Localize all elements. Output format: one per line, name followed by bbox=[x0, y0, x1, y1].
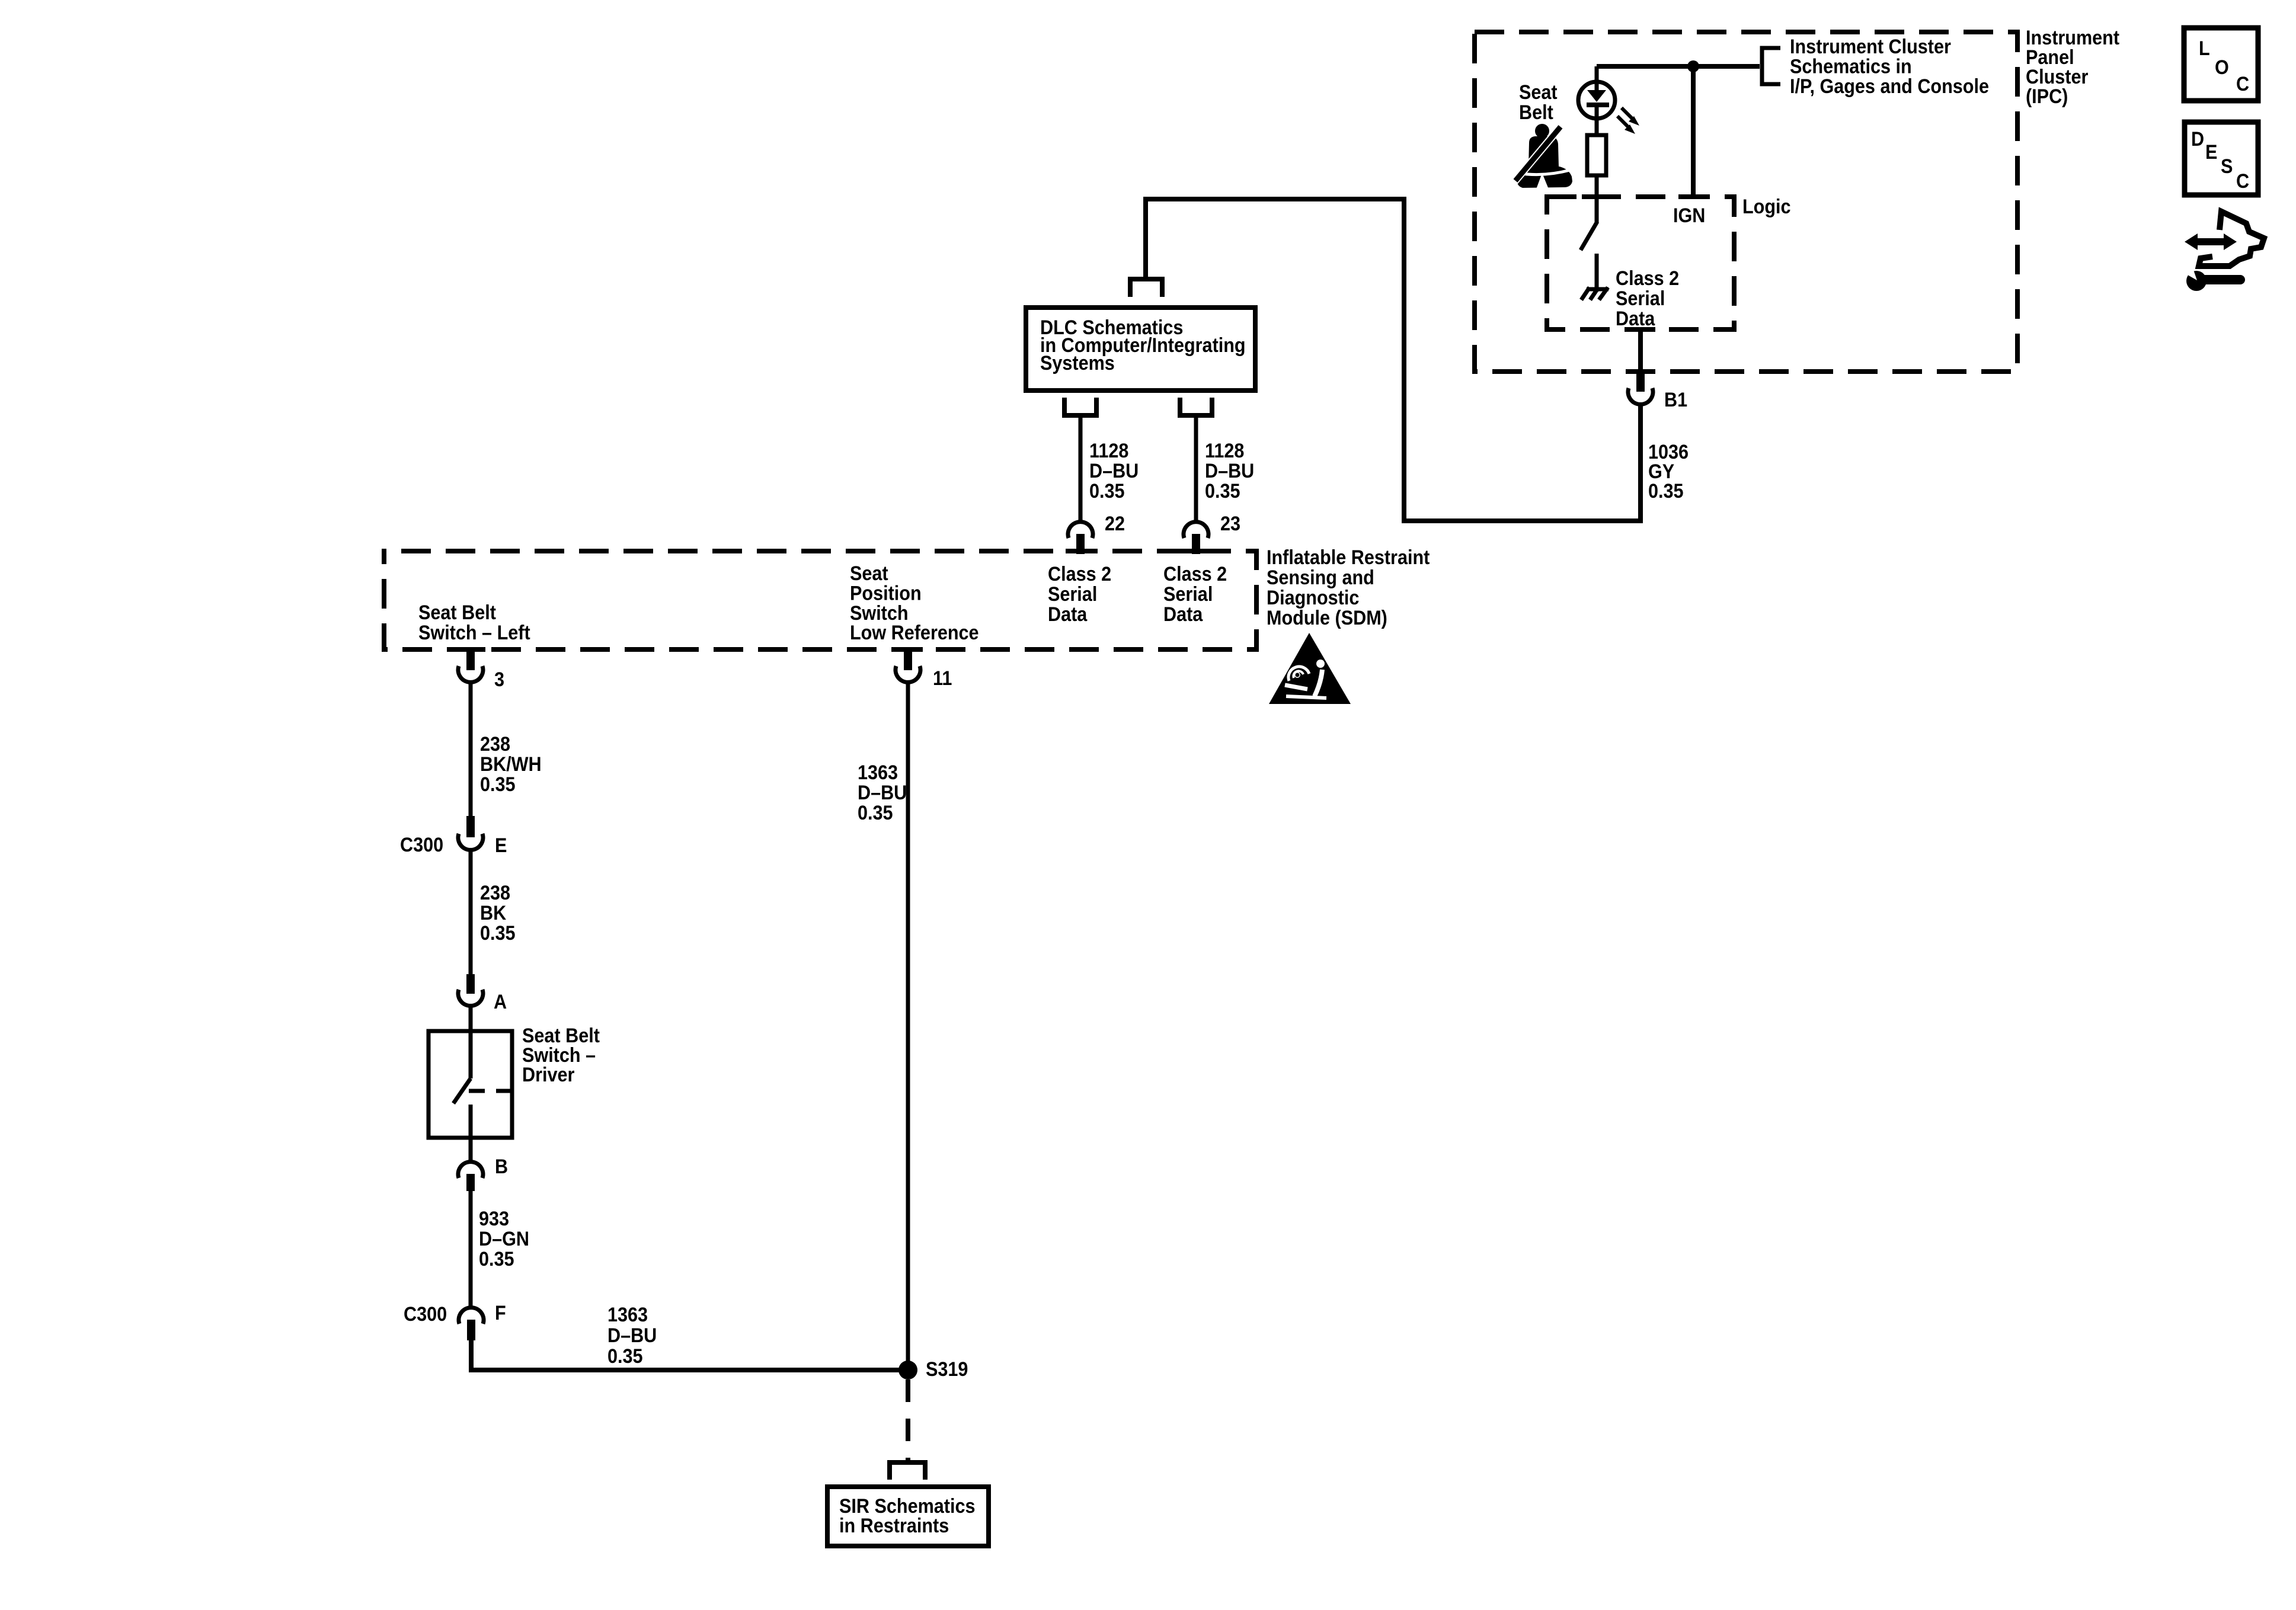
DESC box bbox=[2185, 122, 2258, 195]
wire: IGN vertical bbox=[1691, 66, 1696, 197]
wire: IPC top horizontal feed bbox=[1597, 64, 1760, 69]
off-page bracket below DLC (left) bbox=[1064, 398, 1096, 415]
svg-text:Driver: Driver bbox=[522, 1064, 575, 1086]
svg-text:B1: B1 bbox=[1664, 389, 1687, 411]
light emission arrows bbox=[1617, 108, 1639, 134]
airbag warning triangle bbox=[1269, 633, 1351, 704]
connector arc E bbox=[458, 834, 483, 850]
label: 1128 D-BU 0.35 (left) bbox=[1089, 440, 1139, 502]
label: Class 2 Serial Data (pin 22) bbox=[1048, 563, 1111, 626]
dash patches at pin crossings bbox=[456, 197, 1708, 649]
svg-text:0.35: 0.35 bbox=[1648, 480, 1684, 502]
DLC schematics box bbox=[1026, 308, 1255, 391]
node: junction dot bbox=[1687, 60, 1699, 72]
connector arc 11 bbox=[896, 666, 920, 682]
svg-text:22: 22 bbox=[1105, 513, 1125, 535]
LED diode triangle bbox=[1587, 90, 1606, 102]
svg-text:C300: C300 bbox=[400, 834, 443, 856]
svg-text:0.35: 0.35 bbox=[607, 1345, 643, 1368]
LOC box bbox=[2184, 28, 2258, 101]
connector arc 3 bbox=[458, 666, 483, 682]
dashed wire: S319 to SIR bracket bbox=[906, 1379, 910, 1461]
connector C300 E pin bbox=[466, 816, 475, 837]
svg-text:D–BU: D–BU bbox=[858, 782, 907, 804]
label: Seat Belt bbox=[1519, 81, 1558, 124]
svg-text:Data: Data bbox=[1048, 603, 1088, 626]
svg-text:C300: C300 bbox=[404, 1303, 447, 1326]
label: Seat Belt Switch - Driver bbox=[522, 1025, 600, 1086]
off-page bracket SIR bbox=[890, 1462, 925, 1480]
svg-text:BK/WH: BK/WH bbox=[480, 753, 542, 776]
svg-text:E: E bbox=[2205, 141, 2217, 164]
svg-text:Seat Belt: Seat Belt bbox=[418, 601, 496, 624]
svg-text:0.35: 0.35 bbox=[479, 1248, 514, 1270]
connector pin F bbox=[467, 1320, 475, 1340]
label: Seat Belt Switch - Left bbox=[418, 601, 530, 644]
svg-text:1363: 1363 bbox=[858, 761, 898, 784]
svg-text:23: 23 bbox=[1220, 513, 1240, 535]
svg-text:I/P, Gages and Console: I/P, Gages and Console bbox=[1790, 75, 1989, 98]
svg-text:Class 2: Class 2 bbox=[1163, 563, 1227, 585]
svg-text:C: C bbox=[2236, 170, 2249, 193]
svg-text:O: O bbox=[2215, 56, 2229, 79]
wire: 238 BK/WH bbox=[469, 683, 473, 817]
connector pin 3 bbox=[466, 649, 475, 670]
wire: F down and right to S319 bbox=[471, 1340, 908, 1370]
label: Class 2 Serial Data (IPC) bbox=[1616, 267, 1679, 330]
connector arc A bbox=[458, 990, 483, 1006]
label: 1128 D-BU 0.35 (right) bbox=[1205, 440, 1254, 502]
svg-text:Low Reference: Low Reference bbox=[850, 622, 979, 644]
wire: LED to resistor bbox=[1595, 107, 1599, 135]
svg-text:Position: Position bbox=[850, 582, 922, 604]
connector arc B bbox=[458, 1162, 483, 1178]
svg-text:Systems: Systems bbox=[1040, 352, 1115, 375]
connector pin 23 bbox=[1192, 534, 1200, 554]
svg-text:Diagnostic: Diagnostic bbox=[1267, 587, 1359, 609]
svg-text:238: 238 bbox=[480, 882, 510, 904]
switch wire inside box bbox=[469, 1031, 473, 1078]
switch lower contact stub bbox=[469, 1105, 473, 1138]
svg-text:Schematics in: Schematics in bbox=[1790, 55, 1912, 78]
svg-text:S319: S319 bbox=[926, 1358, 968, 1381]
chassis ground bbox=[1581, 287, 1609, 300]
svg-text:0.35: 0.35 bbox=[480, 922, 516, 945]
off-page bracket below DLC (right) bbox=[1180, 398, 1212, 415]
wire: A to switch box bbox=[469, 1006, 473, 1032]
label: 238 BK 0.35 bbox=[480, 882, 516, 945]
svg-text:Logic: Logic bbox=[1742, 196, 1791, 218]
svg-text:F: F bbox=[495, 1302, 506, 1324]
connector arc B1 bbox=[1628, 388, 1653, 404]
svg-text:S: S bbox=[2221, 155, 2233, 178]
label: 1363 D-BU 0.35 (bottom) bbox=[607, 1304, 657, 1368]
label: SIR Schematics in Restraints bbox=[839, 1495, 975, 1537]
connector pin 11 bbox=[904, 649, 912, 670]
svg-text:D: D bbox=[2191, 128, 2204, 151]
svg-text:0.35: 0.35 bbox=[1205, 480, 1240, 502]
svg-text:Data: Data bbox=[1163, 603, 1203, 626]
svg-text:Serial: Serial bbox=[1163, 583, 1213, 606]
svg-text:Switch – Left: Switch – Left bbox=[418, 622, 530, 644]
switch contact stub bbox=[1595, 254, 1599, 292]
svg-text:3: 3 bbox=[494, 668, 504, 691]
label: Inflatable Restraint Sensing and Diagnostic Module (SDM) bbox=[1267, 546, 1430, 629]
splice S319 bbox=[898, 1361, 917, 1379]
wire: 1363 vertical bbox=[906, 683, 910, 1370]
svg-text:IGN: IGN bbox=[1673, 204, 1705, 227]
LED cathode bar bbox=[1587, 103, 1609, 107]
connector A pin bbox=[466, 974, 475, 994]
svg-text:D–BU: D–BU bbox=[607, 1324, 657, 1347]
switch blade (driver) bbox=[453, 1078, 471, 1103]
svg-text:Serial: Serial bbox=[1616, 287, 1665, 310]
svg-text:Seat: Seat bbox=[850, 562, 888, 585]
label: Instrument Panel Cluster (IPC) bbox=[2026, 27, 2119, 108]
svg-text:A: A bbox=[494, 991, 507, 1013]
svg-text:Class 2: Class 2 bbox=[1616, 267, 1679, 290]
svg-text:E: E bbox=[495, 834, 507, 857]
logic dashed box bbox=[1547, 197, 1734, 329]
SIR schematics box bbox=[827, 1487, 989, 1546]
svg-text:Serial: Serial bbox=[1048, 583, 1097, 606]
svg-text:0.35: 0.35 bbox=[480, 773, 516, 796]
svg-text:Class 2: Class 2 bbox=[1048, 563, 1111, 585]
svg-text:11: 11 bbox=[933, 667, 952, 690]
off-page bracket above DLC box bbox=[1130, 279, 1162, 297]
wire: logic box to B1 bbox=[1638, 329, 1643, 375]
label: Instrument Cluster Schematics in I/P, Gages and Console bbox=[1790, 36, 1989, 98]
svg-text:(IPC): (IPC) bbox=[2026, 85, 2068, 108]
label: Class 2 Serial Data (pin 23) bbox=[1163, 563, 1227, 626]
label: 238 BK/WH 0.35 bbox=[480, 733, 542, 796]
LED indicator circle bbox=[1578, 82, 1615, 119]
switch blade (IPC logic) bbox=[1581, 222, 1597, 250]
service/diagnostic icon bbox=[2185, 212, 2264, 291]
svg-text:1128: 1128 bbox=[1089, 440, 1128, 462]
connector pin 22 bbox=[1076, 534, 1085, 554]
seat belt switch driver box bbox=[428, 1031, 512, 1138]
seat belt person icon bbox=[1515, 124, 1572, 189]
label: 933 D-GN 0.35 bbox=[479, 1208, 529, 1270]
svg-text:1363: 1363 bbox=[607, 1304, 648, 1326]
svg-text:C: C bbox=[2236, 73, 2249, 95]
label: 1036 GY 0.35 bbox=[1648, 441, 1689, 502]
label: 1363 D-BU 0.35 (top) bbox=[858, 761, 907, 824]
svg-text:Sensing and: Sensing and bbox=[1267, 566, 1374, 589]
svg-text:1128: 1128 bbox=[1205, 440, 1244, 462]
svg-text:0.35: 0.35 bbox=[858, 802, 893, 824]
wire: to pin 23 bbox=[1194, 415, 1198, 521]
svg-text:Module (SDM): Module (SDM) bbox=[1267, 607, 1387, 629]
wire: 933 D-GN bbox=[469, 1191, 473, 1307]
svg-text:0.35: 0.35 bbox=[1089, 480, 1125, 502]
svg-text:L: L bbox=[2199, 37, 2210, 60]
wire: B1 down, left, up, left to DLC bracket bbox=[1146, 199, 1641, 521]
label: DLC Schematics in Computer/Integrating Systems bbox=[1040, 316, 1246, 375]
connector arc 23 bbox=[1184, 522, 1208, 538]
wire: junction to LED bbox=[1595, 66, 1599, 90]
svg-text:238: 238 bbox=[480, 733, 510, 756]
svg-text:933: 933 bbox=[479, 1208, 509, 1230]
connector arc F bbox=[459, 1308, 484, 1324]
svg-text:D–BU: D–BU bbox=[1205, 460, 1254, 482]
svg-text:BK: BK bbox=[480, 902, 507, 924]
svg-text:Data: Data bbox=[1616, 308, 1655, 330]
connector pin B1 bbox=[1636, 373, 1645, 392]
instrument panel cluster (IPC) dashed box bbox=[1475, 32, 2017, 372]
svg-text:Instrument Cluster: Instrument Cluster bbox=[1790, 36, 1951, 58]
resistor bbox=[1587, 135, 1606, 175]
wire: resistor to switch bbox=[1595, 175, 1599, 223]
connector arc 22 bbox=[1068, 522, 1093, 538]
switch closed-position dashes bbox=[469, 1089, 485, 1093]
wire: to pin 22 bbox=[1079, 415, 1083, 521]
SDM dashed box bbox=[384, 551, 1256, 649]
svg-text:Seat: Seat bbox=[1519, 81, 1558, 104]
connector pin B bbox=[466, 1174, 475, 1191]
label: Seat Position Switch Low Reference bbox=[850, 562, 979, 644]
svg-text:Belt: Belt bbox=[1519, 101, 1553, 124]
wire: 238 BK bbox=[469, 850, 473, 975]
off-page bracket: instrument cluster schematics bbox=[1762, 48, 1780, 84]
svg-text:Switch: Switch bbox=[850, 601, 909, 624]
svg-text:D–GN: D–GN bbox=[479, 1228, 529, 1250]
svg-text:D–BU: D–BU bbox=[1089, 460, 1139, 482]
svg-text:Inflatable Restraint: Inflatable Restraint bbox=[1267, 546, 1430, 569]
wire: box to B bbox=[469, 1138, 473, 1163]
svg-text:B: B bbox=[495, 1156, 508, 1178]
svg-text:in Restraints: in Restraints bbox=[839, 1515, 949, 1537]
